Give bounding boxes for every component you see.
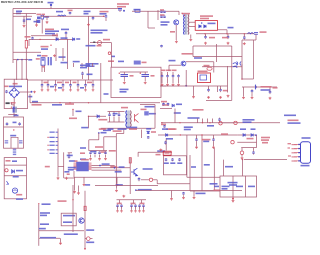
label xyxy=(40,215,47,217)
wire xyxy=(92,169,122,171)
wire xyxy=(121,206,123,209)
label M1 xyxy=(16,194,22,196)
label xyxy=(97,45,102,47)
wire xyxy=(100,63,102,103)
capacitor C114 xyxy=(113,113,116,116)
ground xyxy=(227,95,230,98)
highlight box D8 xyxy=(195,21,217,31)
wire xyxy=(116,133,124,135)
wire xyxy=(88,116,90,128)
wire xyxy=(157,183,190,185)
label xyxy=(45,29,54,31)
capacitor C31 xyxy=(68,155,71,159)
IC U1 pins right xyxy=(89,163,92,170)
label xyxy=(41,48,48,50)
wire xyxy=(55,80,57,84)
node B+ xyxy=(123,10,125,12)
connector CN1 pins xyxy=(56,132,58,154)
component (black) xyxy=(6,102,10,104)
label F2 xyxy=(134,9,141,11)
wire xyxy=(161,85,166,87)
capacitor C11 xyxy=(204,35,207,39)
wire xyxy=(39,230,84,232)
wire xyxy=(12,9,14,64)
wire xyxy=(241,64,243,79)
wire xyxy=(172,78,174,83)
wire xyxy=(208,86,210,90)
ground xyxy=(23,25,26,28)
label xyxy=(75,160,78,162)
wire xyxy=(103,137,105,151)
wire xyxy=(213,135,215,139)
junction xyxy=(72,109,73,110)
highlight box U2 xyxy=(198,73,211,83)
label xyxy=(142,62,147,64)
label xyxy=(91,32,103,34)
junction xyxy=(241,78,243,80)
capacitor CX4 xyxy=(5,90,8,93)
wire xyxy=(13,13,36,15)
label xyxy=(261,139,269,141)
label xyxy=(69,118,77,120)
wire xyxy=(141,200,143,203)
wire xyxy=(92,165,115,167)
label xyxy=(52,104,62,106)
label T5B xyxy=(104,93,109,95)
inductor L3 xyxy=(233,63,237,68)
junction xyxy=(242,159,243,160)
capacitor C40 xyxy=(182,192,185,195)
node xyxy=(98,132,100,134)
transistor Q1 xyxy=(174,20,179,25)
resistor R30 xyxy=(129,158,131,163)
label xyxy=(229,184,237,186)
wire xyxy=(183,195,185,196)
wire xyxy=(41,86,43,89)
label xyxy=(45,30,59,32)
label xyxy=(13,122,17,124)
label xyxy=(172,70,177,72)
capacitor CY2 xyxy=(69,12,72,15)
ground xyxy=(57,177,60,180)
wire xyxy=(116,177,118,183)
wire xyxy=(36,20,38,24)
label xyxy=(204,65,210,67)
wire xyxy=(223,160,225,176)
wire xyxy=(123,130,125,134)
wire xyxy=(57,15,66,17)
wire xyxy=(178,78,180,83)
wire xyxy=(95,185,158,187)
capacitor C19 xyxy=(160,45,163,48)
label xyxy=(76,111,82,113)
capacitor C99x xyxy=(98,151,101,154)
wire xyxy=(143,206,145,209)
wire xyxy=(168,65,170,71)
inductor L4 xyxy=(254,85,257,89)
connector CN2 labels xyxy=(292,144,298,162)
wire xyxy=(111,43,113,68)
label xyxy=(131,203,136,205)
label xyxy=(85,184,90,186)
wire xyxy=(117,206,119,209)
wire xyxy=(78,186,80,192)
ground xyxy=(62,89,65,91)
transformer T3 xyxy=(126,111,131,128)
ground xyxy=(170,198,173,201)
label xyxy=(86,229,94,231)
ground xyxy=(159,149,162,152)
wire xyxy=(193,86,195,96)
wire xyxy=(8,113,17,115)
wire xyxy=(83,177,85,183)
wire xyxy=(256,135,258,148)
label xyxy=(48,2,54,4)
wire xyxy=(167,78,169,83)
junction xyxy=(103,16,104,17)
label xyxy=(120,91,127,93)
label xyxy=(10,135,16,137)
label xyxy=(61,29,69,31)
label xyxy=(160,14,165,16)
wire xyxy=(19,91,31,93)
label xyxy=(101,132,107,134)
wire xyxy=(73,171,75,177)
wire xyxy=(156,180,158,184)
diode D12 xyxy=(12,170,15,174)
wire xyxy=(175,25,177,40)
junction xyxy=(88,102,89,103)
label xyxy=(16,198,23,200)
wire xyxy=(172,72,174,76)
label D8 SBL2040 xyxy=(200,15,213,17)
wire xyxy=(160,108,172,110)
capacitor C12b xyxy=(243,36,246,40)
label xyxy=(42,66,45,68)
wire xyxy=(193,56,242,58)
diode D13 xyxy=(166,134,168,137)
capacitor C3 xyxy=(105,15,108,18)
winding 172.5 xyxy=(171,158,174,161)
wire xyxy=(41,19,43,33)
wire xyxy=(154,105,156,129)
diode D2 xyxy=(56,38,58,41)
label C5 220uF/200V xyxy=(117,3,129,5)
wire xyxy=(157,10,159,20)
wire xyxy=(88,115,106,117)
label xyxy=(80,158,86,160)
wire xyxy=(213,148,215,191)
ground xyxy=(120,210,123,212)
wire xyxy=(25,14,27,41)
capacitor C109.5 xyxy=(108,113,111,116)
label xyxy=(115,171,122,173)
wire xyxy=(47,80,49,84)
capacitor C93 xyxy=(92,84,95,87)
wire xyxy=(115,134,117,186)
label xyxy=(196,193,206,195)
ground xyxy=(232,200,235,203)
label xyxy=(73,82,77,84)
wire xyxy=(90,42,112,44)
label xyxy=(184,129,191,131)
wire xyxy=(105,18,107,21)
label xyxy=(288,122,301,124)
label xyxy=(34,21,39,23)
ground xyxy=(193,196,196,199)
label xyxy=(129,128,137,130)
ground xyxy=(115,189,118,192)
label xyxy=(203,141,209,143)
label xyxy=(103,130,111,132)
switch S1 xyxy=(7,181,9,185)
ground xyxy=(47,89,50,91)
wire xyxy=(193,191,195,197)
wire xyxy=(244,159,287,161)
label xyxy=(37,55,41,57)
label xyxy=(202,139,211,141)
capacitor C9 xyxy=(81,72,84,76)
capacitor C21 xyxy=(207,88,210,92)
ground xyxy=(87,23,90,26)
label xyxy=(119,166,125,168)
capacitor C25 xyxy=(162,103,165,106)
svg-text:BESTEC ATX-300-12Z REV:D: BESTEC ATX-300-12Z REV:D xyxy=(1,0,44,4)
ground xyxy=(138,210,141,212)
ground xyxy=(212,146,215,149)
wire xyxy=(23,16,25,24)
wire xyxy=(108,121,125,123)
capacitor C8 xyxy=(160,16,163,18)
label xyxy=(191,166,196,168)
label xyxy=(113,113,118,115)
label xyxy=(161,70,166,72)
wire xyxy=(269,87,271,92)
capacitor C23 xyxy=(251,89,254,93)
lamp NE1 xyxy=(5,169,8,172)
wire xyxy=(201,135,203,191)
label xyxy=(65,82,69,84)
highlight box xyxy=(163,151,171,155)
label xyxy=(68,169,74,171)
diode D10 xyxy=(172,104,174,107)
label xyxy=(116,184,123,186)
label xyxy=(40,212,50,214)
capacitor C26b xyxy=(167,103,170,106)
wire xyxy=(92,80,94,84)
wire xyxy=(217,86,219,92)
label xyxy=(59,56,66,58)
wire xyxy=(237,141,256,143)
wire xyxy=(70,86,72,89)
varistor RV1 xyxy=(98,41,102,45)
capacitor C143b xyxy=(142,204,145,207)
ground xyxy=(227,42,230,45)
label xyxy=(86,65,95,67)
ground xyxy=(241,157,244,160)
wire xyxy=(13,79,15,87)
ground xyxy=(33,91,36,93)
capacitor C5 (bulk) xyxy=(118,9,122,13)
resistor R xyxy=(149,178,152,181)
ground xyxy=(104,157,107,160)
label xyxy=(91,151,97,153)
wire xyxy=(85,86,87,89)
IC U1 pins left xyxy=(74,163,77,170)
ground xyxy=(123,81,126,84)
wire xyxy=(167,72,169,76)
label D1 1N4007 xyxy=(91,30,108,32)
wire xyxy=(58,166,64,168)
wire xyxy=(56,33,58,39)
ground xyxy=(84,89,87,91)
label xyxy=(103,39,110,41)
junction xyxy=(13,129,14,130)
capacitor C78 xyxy=(77,84,80,87)
capacitor C42 xyxy=(41,84,44,87)
label xyxy=(262,142,268,144)
label T1 xyxy=(182,13,190,15)
label xyxy=(222,186,230,188)
label PSON xyxy=(45,166,50,168)
node xyxy=(255,134,257,136)
inductor L2 xyxy=(248,33,254,34)
capacitor C135b xyxy=(134,204,137,207)
capacitor C70 xyxy=(69,84,72,87)
resistor RT1 (NTC) xyxy=(25,40,27,48)
earth symbol xyxy=(50,4,52,6)
ground xyxy=(251,96,254,99)
winding 179.5 xyxy=(178,158,181,161)
diode D3 xyxy=(73,38,75,41)
ground xyxy=(122,195,125,198)
bridge rectifier BD1 xyxy=(9,88,19,98)
label xyxy=(111,56,115,58)
label xyxy=(236,186,243,188)
label xyxy=(169,128,177,130)
wire xyxy=(21,60,23,80)
wire xyxy=(242,78,254,80)
capacitor C117b xyxy=(116,204,119,207)
capacitor C38 xyxy=(147,136,150,139)
wire xyxy=(141,130,143,139)
junction xyxy=(204,33,205,34)
ground xyxy=(144,81,147,84)
label TL494 xyxy=(81,159,89,161)
wire xyxy=(197,119,199,123)
label xyxy=(288,120,299,122)
wire xyxy=(207,119,209,123)
wire xyxy=(28,79,113,81)
connector CN1 marks xyxy=(47,137,49,151)
label xyxy=(41,46,49,48)
wire xyxy=(132,10,179,12)
label xyxy=(243,121,252,123)
wire xyxy=(243,87,245,96)
junction xyxy=(202,122,203,123)
wire xyxy=(196,142,198,146)
label xyxy=(170,31,175,33)
wire xyxy=(84,191,86,249)
junction xyxy=(59,102,60,103)
wire xyxy=(101,127,155,129)
ground xyxy=(89,158,92,161)
capacitor C55 xyxy=(54,84,57,87)
wire xyxy=(133,200,135,203)
connector CN1 labels xyxy=(50,132,55,155)
wire xyxy=(16,60,18,80)
label xyxy=(81,127,88,129)
diode D15 xyxy=(243,134,245,137)
label xyxy=(76,38,80,40)
wire xyxy=(227,66,229,93)
wire xyxy=(13,105,15,107)
junction xyxy=(72,199,73,200)
label xyxy=(32,101,38,103)
ground xyxy=(35,24,38,27)
wire xyxy=(72,109,74,116)
label xyxy=(99,128,106,130)
resistor R79 xyxy=(84,206,86,210)
label xyxy=(157,150,165,152)
box bridge input xyxy=(4,79,27,108)
label xyxy=(12,160,17,162)
wire xyxy=(29,94,31,103)
thermistor xyxy=(219,122,222,125)
label RT1 xyxy=(25,36,31,38)
wire xyxy=(169,64,181,66)
wire xyxy=(161,78,163,83)
node xyxy=(17,59,19,61)
box PWM bottom xyxy=(64,177,74,179)
wire xyxy=(113,112,115,114)
wire xyxy=(251,93,253,96)
label xyxy=(194,57,202,59)
label xyxy=(301,165,310,167)
ground xyxy=(46,21,49,24)
label T3 xyxy=(121,107,128,109)
node xyxy=(201,22,203,24)
wire xyxy=(241,148,243,151)
wire xyxy=(186,135,188,177)
label xyxy=(63,221,72,223)
polarity mark xyxy=(140,73,141,74)
junction xyxy=(88,116,89,117)
wire xyxy=(189,155,191,191)
label xyxy=(73,61,80,63)
capacitor C6 (electrolytic) xyxy=(142,72,150,81)
wire xyxy=(241,147,256,149)
wire xyxy=(13,113,15,117)
IC U4 xyxy=(145,112,149,116)
label xyxy=(40,237,56,239)
ground xyxy=(269,97,272,100)
motor M1 xyxy=(12,188,17,193)
label xyxy=(140,203,145,205)
diode D19 xyxy=(147,131,150,133)
jumper J1 xyxy=(207,67,212,70)
connector CN1 spine xyxy=(57,129,59,177)
wire xyxy=(13,15,32,17)
wire xyxy=(129,158,131,194)
ground xyxy=(142,210,145,212)
wire xyxy=(55,48,57,61)
wire xyxy=(90,238,92,240)
transformer T5 xyxy=(13,107,17,113)
label xyxy=(100,13,107,15)
label C12 xyxy=(222,37,228,39)
label xyxy=(64,233,78,235)
